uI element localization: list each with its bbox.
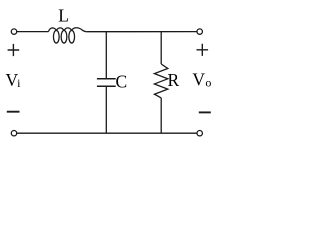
terminal bottom-right [197, 131, 202, 136]
terminal top-left [11, 29, 16, 34]
minus sign left [7, 111, 20, 113]
resistor R zigzag [154, 64, 167, 98]
terminal bottom-left [11, 131, 16, 136]
svg-text:R: R [168, 70, 180, 90]
capacitor C bottom plate [97, 85, 116, 87]
wire capacitor branch upper [105, 32, 107, 78]
wire top rail right segment [87, 31, 197, 33]
wire bottom rail [17, 132, 197, 134]
plus sign right [197, 44, 209, 56]
wire top rail left segment [17, 31, 49, 33]
svg-text:C: C [116, 72, 128, 92]
inductor L coil [48, 28, 86, 43]
svg-text:i: i [17, 76, 21, 90]
svg-text:o: o [205, 76, 211, 90]
wire capacitor branch lower [105, 87, 107, 133]
terminal top-right [197, 29, 202, 34]
plus sign left [8, 44, 20, 56]
capacitor C top plate [97, 78, 116, 80]
svg-text:V: V [192, 69, 205, 89]
wire resistor branch lower [160, 98, 162, 133]
svg-text:L: L [58, 6, 69, 26]
wire resistor branch upper [160, 32, 162, 64]
minus sign right [199, 111, 211, 113]
